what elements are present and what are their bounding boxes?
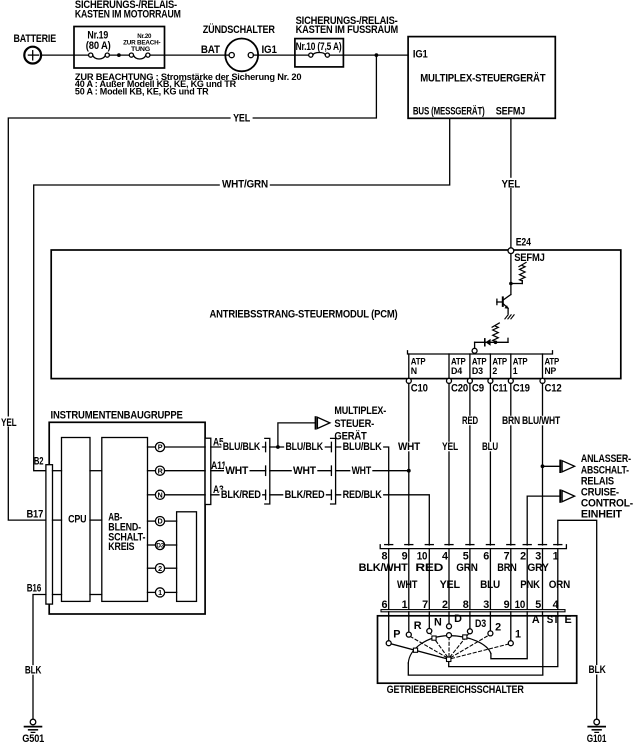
contact D3 (467, 618, 486, 634)
connector bar double line (381, 610, 565, 612)
svg-text:BRN: BRN (502, 415, 520, 427)
svg-text:WHT: WHT (225, 465, 248, 477)
svg-text:RED: RED (415, 562, 443, 574)
svg-text:D3: D3 (156, 542, 164, 549)
PCM box ANTRIEBSSTRANG-STEUERMODUL (51, 250, 621, 379)
pin ATP 1 C19 (508, 354, 530, 395)
wire ignition switch to fuse box 2 (258, 54, 309, 56)
wire BLU from C11 to connector (481, 383, 500, 545)
svg-text:BLK: BLK (25, 664, 42, 676)
pin ATP D4 C20 (447, 354, 469, 395)
fuse Nr.20 (123, 33, 160, 59)
svg-text:RED: RED (462, 415, 478, 427)
svg-text:ST: ST (547, 614, 560, 626)
svg-text:9: 9 (402, 550, 408, 562)
switch rotor arc (408, 636, 491, 663)
indicator D3 (148, 540, 177, 549)
svg-text:YEL: YEL (442, 441, 458, 453)
svg-text:D4: D4 (451, 366, 462, 376)
svg-text:KASTEN IM FUSSRAUM: KASTEN IM FUSSRAUM (296, 24, 399, 36)
indicator 1 (148, 588, 177, 597)
CPU box (62, 438, 91, 602)
relay symbol ANLASSER-ABSCHALT-RELAIS (560, 453, 631, 487)
ground G101 (587, 719, 607, 745)
svg-text:G101: G101 (587, 733, 607, 745)
connector strip A right (205, 438, 211, 504)
svg-text:CRUISE-: CRUISE- (581, 486, 620, 498)
wire BRN from C19 to connector (501, 383, 522, 545)
fuse Nr.10 (7,5 A) (296, 41, 342, 57)
connector pin numbers top (382, 550, 559, 562)
wire color labels row 2 (397, 579, 570, 591)
svg-text:D: D (454, 613, 462, 625)
wire WHT right row2 to junction (336, 465, 409, 477)
svg-text:CONTROL-: CONTROL- (581, 498, 633, 510)
svg-text:STEUER-: STEUER- (334, 418, 374, 430)
svg-text:WHT: WHT (397, 579, 418, 591)
svg-text:BLK/RED: BLK/RED (221, 489, 261, 501)
ignition switch ZUENDSCHALTER (201, 23, 277, 71)
svg-text:ANTRIEBSSTRANG-STEUERMODUL (PC: ANTRIEBSSTRANG-STEUERMODUL (PCM) (210, 309, 399, 321)
wire fuse box to ignition switch (150, 54, 225, 56)
wire RED/BLK right row3 to connector col 10 (336, 489, 430, 545)
svg-text:N: N (411, 366, 417, 376)
svg-text:BLU/WHT: BLU/WHT (522, 415, 560, 427)
dashed selector lines (410, 633, 509, 659)
svg-text:E24: E24 (516, 237, 531, 249)
svg-text:D3: D3 (475, 618, 486, 630)
pin ATP 2 C11 (488, 354, 508, 395)
svg-text:G501: G501 (22, 733, 44, 745)
svg-text:C20: C20 (451, 383, 468, 395)
svg-text:BAT: BAT (201, 44, 220, 56)
svg-text:GRY: GRY (527, 562, 549, 574)
indicator R (148, 466, 206, 475)
wire A column inside switch (491, 616, 527, 659)
svg-text:BLK: BLK (589, 664, 606, 676)
wire E column inside switch to common (449, 616, 558, 667)
wires connector to range switch 10 columns (389, 549, 558, 610)
svg-text:KASTEN IM MOTORRAUM: KASTEN IM MOTORRAUM (75, 9, 181, 21)
ATP pin bracket (408, 351, 553, 354)
indicator N (148, 490, 206, 499)
svg-text:ANLASSER-: ANLASSER- (581, 453, 631, 465)
indicator 2 (148, 564, 177, 573)
unit symbol CRUISE-CONTROL-EINHEIT (560, 486, 633, 520)
svg-text:2: 2 (495, 621, 501, 633)
svg-text:WHT: WHT (398, 441, 421, 453)
svg-text:BLU: BLU (482, 441, 498, 453)
note ZUR BEACHTUNG text (75, 72, 302, 97)
indicator D (148, 517, 177, 526)
wire branch to ANLASSER relay (541, 464, 560, 468)
svg-text:4: 4 (442, 550, 448, 562)
svg-text:C10: C10 (411, 383, 428, 395)
wires bar to switch contacts (389, 612, 558, 641)
svg-text:TUNG: TUNG (131, 46, 150, 53)
bridge contact squares (413, 635, 467, 662)
svg-text:SEFMJ: SEFMJ (514, 252, 545, 264)
unit symbol MULTIPLEX-STEUER-GERAET (316, 405, 387, 443)
svg-text:7: 7 (504, 550, 510, 562)
wire color labels row 1 (359, 562, 550, 574)
contact D double (447, 613, 463, 638)
wire ORN column to BLK ground G101 (558, 520, 607, 719)
wire YEL from SEFMJ to PCM pin E24 (499, 118, 522, 248)
svg-text:YEL: YEL (233, 112, 250, 124)
svg-text:P: P (158, 443, 163, 452)
wire BLU/WHT from C12 to connector (521, 383, 561, 545)
svg-text:2: 2 (492, 366, 497, 376)
svg-text:E: E (565, 614, 572, 626)
resistor R-upper pullup (519, 262, 526, 281)
wire BLU/BLK middle row1 (270, 441, 332, 453)
wire fuse box 2 to multiplex unit with junction (330, 53, 409, 57)
svg-text:BLK/WHT: BLK/WHT (359, 562, 409, 574)
svg-text:50 A : Modell KB, KE, KG und T: 50 A : Modell KB, KE, KG und TR (75, 86, 209, 96)
svg-text:BLU/BLK: BLU/BLK (286, 441, 324, 453)
svg-text:BATTERIE: BATTERIE (14, 33, 57, 45)
terminal labels A ST E (532, 614, 572, 626)
svg-text:ZÜNDSCHALTER: ZÜNDSCHALTER (203, 23, 275, 36)
wires CPU to dimming circuit (90, 471, 102, 595)
switch position solid link P to common (391, 644, 447, 659)
svg-text:IG1: IG1 (262, 44, 277, 56)
svg-text:CPU: CPU (68, 514, 87, 526)
wire WHT middle row2 (270, 465, 332, 477)
svg-text:MULTIPLEX-STEUERGERÄT: MULTIPLEX-STEUERGERÄT (420, 71, 546, 84)
wire ST column inside switch to arc (408, 616, 543, 675)
indicator small box right (177, 512, 197, 602)
pin ATP D3 C9 (467, 354, 486, 395)
svg-text:KREIS: KREIS (108, 541, 134, 553)
contact R (406, 620, 422, 637)
svg-text:N: N (158, 490, 163, 499)
svg-text:(80 A): (80 A) (86, 40, 111, 52)
dimming circuit box AB-BLEND-SCHALT-KREIS (102, 438, 148, 602)
svg-text:2: 2 (158, 564, 162, 573)
svg-text:WHT: WHT (293, 465, 316, 477)
pin A5 wire BLU/BLK row (211, 437, 266, 454)
svg-text:BLK/RED: BLK/RED (285, 489, 325, 501)
wire WHT/GRN from BUS to B2 of instrument cluster (34, 118, 450, 470)
svg-text:BLU: BLU (480, 579, 500, 591)
instrument cluster box INSTRUMENTENBAUGRUPPE (49, 410, 205, 614)
battery BATT (14, 33, 57, 63)
svg-text:BLU/BLK: BLU/BLK (343, 441, 382, 453)
svg-text:INSTRUMENTENBAUGRUPPE: INSTRUMENTENBAUGRUPPE (51, 410, 183, 422)
svg-text:B17: B17 (27, 509, 44, 521)
wire between fuses with junction (109, 53, 129, 57)
svg-text:BLU/BLK: BLU/BLK (223, 441, 261, 453)
connector ticks top row (385, 544, 562, 546)
fuse box SICHERUNGS-/RELAIS-KASTEN IM MOTORRAUM (74, 0, 181, 68)
wire YEL from junction to B17 of instrument cluster (0, 55, 376, 520)
svg-text:NP: NP (545, 366, 557, 376)
transistor Q1 (497, 295, 511, 314)
wire YEL from C20 to connector (441, 383, 460, 545)
svg-text:P: P (393, 629, 400, 641)
pin A11 wire WHT row (211, 460, 266, 477)
ground internal (505, 315, 514, 319)
wire PNK branch to CRUISE-CONTROL (527, 496, 559, 545)
svg-text:3: 3 (535, 550, 541, 562)
pin B17 (27, 509, 62, 521)
svg-text:Nr.10 (7,5 A): Nr.10 (7,5 A) (296, 41, 342, 53)
connector bracket C2 (331, 438, 336, 504)
indicator P (148, 442, 206, 451)
wire RED from C9 to connector (461, 383, 480, 545)
connector bracket C1 (265, 438, 270, 504)
svg-text:PNK: PNK (520, 579, 540, 591)
connector pin numbers bottom (382, 599, 559, 611)
pin B16 (27, 582, 62, 594)
svg-text:R: R (414, 620, 422, 632)
svg-text:B2: B2 (34, 456, 44, 468)
contact 1 (508, 629, 521, 646)
svg-text:D: D (158, 517, 163, 526)
svg-text:N: N (434, 617, 442, 629)
contact N (427, 617, 442, 634)
svg-text:2: 2 (520, 550, 526, 562)
fuse Nr.19 (80 A) (86, 30, 111, 59)
pin A3 wire BLK/RED row (211, 484, 266, 501)
svg-text:8: 8 (382, 550, 388, 562)
svg-text:C12: C12 (545, 383, 562, 395)
ground G501 (22, 719, 44, 745)
svg-text:YEL: YEL (502, 179, 521, 191)
connector bracket long (380, 545, 566, 549)
svg-text:YEL: YEL (440, 579, 461, 591)
pin E24 SEFMJ (508, 237, 545, 265)
resistor R-lower with diode D1 to pin ATP D3 (472, 323, 508, 353)
svg-text:1: 1 (158, 588, 162, 597)
svg-text:GETRIEBEBEREICHSSCHALTER: GETRIEBEBEREICHSSCHALTER (387, 684, 524, 696)
wire BLK from B16 to ground G501 (23, 595, 46, 720)
contact P (386, 629, 400, 646)
pin ATP NP C12 (540, 354, 562, 395)
svg-text:WHT: WHT (352, 465, 372, 477)
svg-text:RED/BLK: RED/BLK (343, 489, 382, 501)
svg-text:C9: C9 (472, 383, 484, 395)
svg-text:BUS (MESSGERÄT): BUS (MESSGERÄT) (413, 104, 485, 117)
contact 2 (488, 621, 501, 636)
wire BLU/BLK right row1 to connector col 8 (336, 441, 389, 545)
svg-text:C11: C11 (492, 383, 507, 395)
svg-text:SEFMJ: SEFMJ (496, 105, 526, 117)
svg-text:IG1: IG1 (413, 48, 428, 60)
svg-text:D3: D3 (472, 366, 483, 376)
pin B2 (34, 456, 62, 471)
svg-text:10: 10 (417, 550, 428, 562)
pin ATP N C10 (406, 354, 428, 395)
wire WHT from C10 to connector (397, 383, 422, 545)
svg-text:EINHEIT: EINHEIT (581, 509, 623, 521)
svg-text:B16: B16 (27, 582, 42, 594)
svg-text:A: A (532, 614, 540, 626)
multiplex control unit box MULTIPLEX-STEUERGERAET (408, 37, 555, 119)
svg-text:5: 5 (463, 550, 469, 562)
svg-text:ORN: ORN (549, 579, 571, 591)
svg-text:1: 1 (515, 629, 521, 641)
svg-text:C19: C19 (513, 383, 530, 395)
wire internal SEFMJ node (509, 254, 522, 295)
svg-text:BRN: BRN (497, 562, 517, 574)
fuse box SICHERUNGS-/RELAIS-KASTEN IM FUSSRAUM (295, 15, 398, 67)
svg-text:6: 6 (483, 550, 489, 562)
transmission range switch box GETRIEBEBEREICHSSCHALTER (378, 616, 577, 696)
svg-text:GRN: GRN (456, 562, 478, 574)
svg-text:YEL: YEL (1, 417, 17, 429)
wire battery to fuse Nr.19 (41, 54, 88, 56)
svg-text:1: 1 (513, 366, 518, 376)
svg-text:WHT/GRN: WHT/GRN (222, 179, 268, 191)
wire BLK/RED middle row3 (270, 489, 332, 501)
svg-text:MULTIPLEX-: MULTIPLEX- (334, 405, 386, 417)
wire branch to MULTIPLEX-STEUER-GERAET (278, 423, 315, 447)
svg-text:ABSCHALT-: ABSCHALT- (581, 464, 629, 476)
connector strip B left (46, 465, 53, 604)
